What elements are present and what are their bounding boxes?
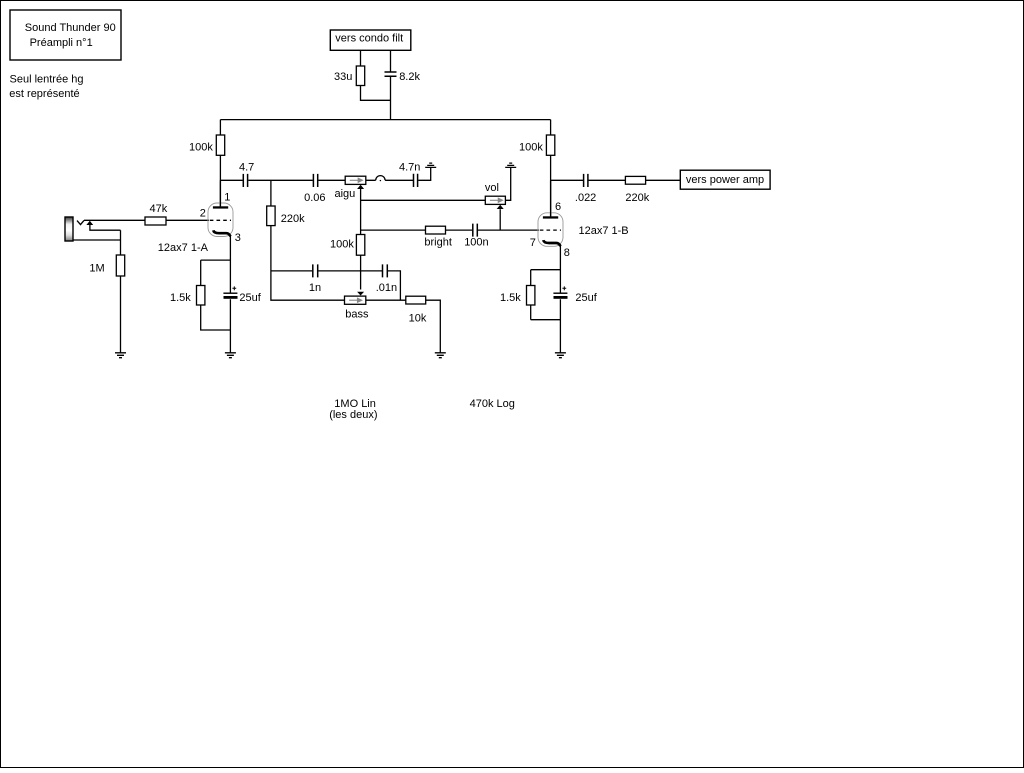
svg-text:1.5k: 1.5k xyxy=(170,292,191,304)
svg-text:100k: 100k xyxy=(330,239,354,251)
svg-text:0.06: 0.06 xyxy=(304,192,325,204)
svg-text:100k: 100k xyxy=(189,141,213,153)
svg-text:vers condo filt: vers condo filt xyxy=(335,33,403,45)
svg-text:Préampli n°1: Préampli n°1 xyxy=(30,37,93,49)
svg-text:47k: 47k xyxy=(150,203,168,215)
svg-text:10k: 10k xyxy=(409,312,427,324)
svg-text:12ax7 1-B: 12ax7 1-B xyxy=(579,225,629,237)
svg-text:12ax7 1-A: 12ax7 1-A xyxy=(158,242,209,254)
svg-text:6: 6 xyxy=(555,201,561,213)
svg-text:8.2k: 8.2k xyxy=(399,71,420,83)
svg-text:1: 1 xyxy=(224,191,230,203)
svg-text:vers power amp: vers power amp xyxy=(686,174,764,186)
svg-text:100n: 100n xyxy=(464,236,488,248)
svg-text:1n: 1n xyxy=(309,282,321,294)
svg-text:bass: bass xyxy=(345,309,369,321)
svg-text:aigu: aigu xyxy=(335,188,356,200)
svg-text:1.5k: 1.5k xyxy=(500,292,521,304)
svg-text:25uf: 25uf xyxy=(239,292,261,304)
svg-text:33u: 33u xyxy=(334,71,352,83)
svg-text:3: 3 xyxy=(235,232,241,244)
svg-text:470k Log: 470k Log xyxy=(470,398,515,410)
svg-text:bright: bright xyxy=(424,236,452,248)
svg-text:vol: vol xyxy=(485,182,499,194)
svg-text:4.7n: 4.7n xyxy=(399,162,420,174)
svg-text:1MO Lin: 1MO Lin xyxy=(334,398,376,410)
svg-text:2: 2 xyxy=(200,207,206,219)
svg-text:8: 8 xyxy=(564,247,570,259)
svg-text:220k: 220k xyxy=(281,213,305,225)
svg-text:.022: .022 xyxy=(575,192,596,204)
svg-text:100k: 100k xyxy=(519,141,543,153)
svg-text:(les deux): (les deux) xyxy=(329,409,377,421)
svg-text:4.7: 4.7 xyxy=(239,162,254,174)
svg-text:25uf: 25uf xyxy=(575,292,597,304)
svg-text:7: 7 xyxy=(530,237,536,249)
svg-text:est représenté: est représenté xyxy=(9,88,79,100)
svg-text:220k: 220k xyxy=(625,192,649,204)
svg-text:1M: 1M xyxy=(89,262,104,274)
svg-text:Seul lentrée hg: Seul lentrée hg xyxy=(10,73,84,85)
svg-text:.01n: .01n xyxy=(376,282,397,294)
svg-text:Sound Thunder 90: Sound Thunder 90 xyxy=(25,22,116,34)
